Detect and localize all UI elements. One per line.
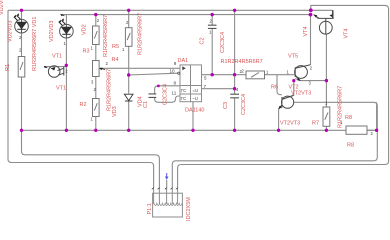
wire C2 bottom lead xyxy=(211,28,213,74)
svg-text:IDC2X5M: IDC2X5M xyxy=(186,197,192,221)
svg-text:C1: C1 xyxy=(143,101,149,108)
capacitor C2 xyxy=(208,25,217,28)
svg-text:R1R2R4R5R6R7: R1R2R4R5R6R7 xyxy=(107,69,113,111)
connector pin ticks xyxy=(152,188,178,190)
svg-text:ГС: ГС xyxy=(181,88,186,93)
pin arrow VT1 base xyxy=(44,66,48,68)
wire R3 to R2a xyxy=(95,45,97,61)
wire DA1 pin 7 xyxy=(202,88,235,90)
transistor VT2 xyxy=(295,65,311,81)
wire pin 9 to DA1 xyxy=(100,67,181,69)
resistor R4 xyxy=(125,28,132,47)
wire bus drop to connector xyxy=(22,130,160,188)
svg-text:P1:1: P1:1 xyxy=(147,203,153,214)
wire R8 right to junction xyxy=(367,102,377,130)
svg-text:8: 8 xyxy=(174,81,177,86)
wire R3 top xyxy=(95,15,97,26)
svg-text:DA1: DA1 xyxy=(178,58,189,64)
label R-list near R7 xyxy=(338,86,344,128)
pin arrow wire 9 start xyxy=(99,68,105,71)
wire VT4 emitter column to R7 xyxy=(325,34,327,107)
label R7 xyxy=(312,121,319,127)
label VT1 lower xyxy=(56,86,66,92)
transistor VT3 xyxy=(279,95,294,109)
label IDC2X5M xyxy=(186,197,192,221)
svg-text:VT1: VT1 xyxy=(56,86,66,92)
label R3 xyxy=(83,49,90,55)
pin marks small xyxy=(19,18,374,136)
capacitor C3 xyxy=(230,94,239,98)
svg-text:VT2: VT2 xyxy=(289,84,299,90)
LED VD2 xyxy=(59,18,74,38)
label C-list near C2 xyxy=(220,32,226,53)
svg-text:R6: R6 xyxy=(271,85,278,91)
label R6 xyxy=(271,85,278,91)
capacitor C1 xyxy=(149,94,157,98)
wire VD1 top lead xyxy=(21,10,23,19)
svg-text:11: 11 xyxy=(172,91,177,96)
label C-list near C3 xyxy=(241,94,247,115)
wire VT3 collector xyxy=(282,81,294,100)
chip DA1 pin 10 inversion bubble xyxy=(178,72,180,74)
wire R1 to bottom bus xyxy=(21,77,23,130)
svg-text:VT4: VT4 xyxy=(344,28,350,38)
label R-list lower left of VD4 xyxy=(107,69,113,111)
resistor R3 xyxy=(93,26,100,45)
label R8 upper xyxy=(345,115,352,121)
wire bottom bus xyxy=(22,129,377,131)
pin number 9 xyxy=(174,61,177,66)
wire R6 to transistor bases xyxy=(265,74,295,76)
label VD2VD3 second xyxy=(49,21,55,42)
label C2 xyxy=(200,37,206,44)
resistor R2a middle of chain xyxy=(93,61,100,77)
svg-text:–U: –U xyxy=(193,96,198,101)
resistor R8 horizontal xyxy=(346,126,367,134)
svg-text:R1R2R4R5R6R7: R1R2R4R5R6R7 xyxy=(138,13,144,55)
label VT2VT3 lower xyxy=(280,120,300,126)
label DA1 xyxy=(178,58,189,64)
svg-text:VT2VT3: VT2VT3 xyxy=(280,120,300,126)
wire node vertical to C3 xyxy=(234,10,236,94)
svg-text:R8: R8 xyxy=(347,143,354,149)
label C-list near C1 xyxy=(163,84,169,105)
pin number 11 xyxy=(172,91,177,96)
op-amp U1 chip DA1 body xyxy=(180,65,202,102)
pin number 5 xyxy=(204,76,207,81)
label R4 xyxy=(112,57,119,63)
label VT4 right xyxy=(344,28,350,38)
wire left edge xyxy=(8,10,12,162)
resistor R1 xyxy=(18,57,25,78)
wire VD4 to bottom bus xyxy=(128,102,130,131)
label VD4 xyxy=(138,96,144,107)
wire bus A top xyxy=(8,9,333,11)
label VT5 xyxy=(288,54,298,60)
wire C1 bottom to pin 11 xyxy=(155,96,180,102)
label R5 xyxy=(112,44,119,50)
svg-text:VD2VD3: VD2VD3 xyxy=(0,0,5,15)
LED VD1 xyxy=(14,13,29,33)
wire DA1 pin 5 to R6 xyxy=(202,74,247,76)
svg-text:VD2VD3: VD2VD3 xyxy=(49,21,55,42)
svg-text:VT5: VT5 xyxy=(288,54,298,60)
wire pin 10 to DA1 xyxy=(129,73,178,75)
label R-list VD1 xyxy=(32,17,38,71)
svg-text:R5: R5 xyxy=(112,44,119,50)
label VT2 xyxy=(289,84,299,90)
transistor VT1 xyxy=(48,66,63,78)
wire VD1 to R1 xyxy=(21,33,23,57)
wire branch to VT3 base xyxy=(277,75,282,95)
svg-text:9: 9 xyxy=(174,61,177,66)
chip DA1 internal marks xyxy=(181,66,198,101)
label R8 lower xyxy=(347,143,354,149)
svg-text:VD2VD3: VD2VD3 xyxy=(8,21,14,42)
label C3 xyxy=(223,102,229,109)
label fragment left edge xyxy=(0,0,5,15)
wire R2 to bottom bus xyxy=(95,117,97,131)
wire C2 top lead xyxy=(211,15,213,25)
wire VT2 collector xyxy=(310,15,312,65)
svg-text:VD3: VD3 xyxy=(112,106,118,117)
svg-text:VD2: VD2 xyxy=(82,24,88,35)
svg-text:R8: R8 xyxy=(345,115,352,121)
wire VT2 emitter xyxy=(295,79,326,81)
junction node dots xyxy=(20,8,379,132)
svg-text:R7: R7 xyxy=(312,121,319,127)
svg-text:R1R2R4R5R6R7 VD1: R1R2R4R5R6R7 VD1 xyxy=(32,17,38,71)
transistor VT4 xyxy=(314,10,334,34)
label R2 xyxy=(80,102,87,108)
svg-text:C2C3C4: C2C3C4 xyxy=(163,84,169,105)
resistor R6 horizontal xyxy=(246,71,265,79)
pin number 8 xyxy=(174,81,177,86)
label VT2VT3 upper xyxy=(291,91,311,97)
diode VD4 xyxy=(124,94,133,101)
wire R7 to bottom bus xyxy=(325,126,327,130)
wire connector middle pin stub xyxy=(166,180,168,189)
svg-text:R1R2R4R5R6R7: R1R2R4R5R6R7 xyxy=(103,15,109,57)
wire DA1 bottom pin to bus xyxy=(192,102,194,131)
wire VT4 left lead xyxy=(314,15,319,19)
svg-text:C3: C3 xyxy=(223,102,229,109)
wire VT3 emitter to bottom bus xyxy=(279,105,282,131)
wire C3 to bottom bus xyxy=(234,98,236,131)
wire outer top right loop xyxy=(178,5,389,188)
net arrow blue xyxy=(165,173,169,180)
label R1 xyxy=(5,64,11,71)
svg-text:R2: R2 xyxy=(80,102,87,108)
wire R4 to VD4 xyxy=(128,46,130,93)
svg-text:C2: C2 xyxy=(200,37,206,44)
label VD3 xyxy=(112,106,118,117)
svg-text:VT4: VT4 xyxy=(303,26,309,36)
label P1-1 xyxy=(147,203,153,214)
svg-text:7: 7 xyxy=(204,84,207,89)
svg-text:VT2VT3: VT2VT3 xyxy=(291,91,311,97)
svg-text:R1R2R4R5R6R7: R1R2R4R5R6R7 xyxy=(221,59,263,65)
wire bus B xyxy=(61,14,313,16)
label R-list left of R4 xyxy=(103,15,109,57)
svg-text:R1: R1 xyxy=(5,64,11,71)
svg-text:C2C3C4: C2C3C4 xyxy=(220,32,226,53)
label VT4 left xyxy=(303,26,309,36)
svg-text:5: 5 xyxy=(204,76,207,81)
label VD2VD3 left xyxy=(8,21,14,42)
label DA1140 xyxy=(185,108,204,114)
wire pin 8 to DA1 with corner to C1 xyxy=(155,86,180,94)
svg-text:C2C3C4: C2C3C4 xyxy=(241,94,247,115)
pin arrow bus B start xyxy=(60,14,64,16)
svg-text:DA1140: DA1140 xyxy=(185,108,204,114)
resistor R7 xyxy=(323,107,330,126)
wire VT3 collector net to inner right loop xyxy=(172,102,377,188)
resistor R2 xyxy=(93,99,100,117)
svg-text:VT1: VT1 xyxy=(52,54,62,60)
label R-list above R6 xyxy=(221,59,263,65)
wire VT1 base xyxy=(44,66,66,68)
wire VD2 column to bottom bus xyxy=(65,38,67,130)
label VT1 upper xyxy=(52,54,62,60)
label VD2 xyxy=(82,24,88,35)
svg-text:10: 10 xyxy=(170,69,176,74)
wire R4 top xyxy=(128,10,130,27)
svg-text:ГС: ГС xyxy=(181,96,186,101)
wire R2a to R2 xyxy=(95,77,97,99)
pin number 10 xyxy=(170,69,176,74)
svg-text:R4: R4 xyxy=(112,57,119,63)
svg-text:R3: R3 xyxy=(83,49,90,55)
label C1 xyxy=(143,101,149,108)
wire outer-left bottom to connector xyxy=(10,163,154,189)
svg-text:=U: =U xyxy=(193,88,198,93)
wire VT4 right lead xyxy=(332,10,334,18)
wire VD2 top lead xyxy=(65,15,67,25)
pin number 7 xyxy=(204,84,207,89)
label R-list right of R4 xyxy=(138,13,144,55)
connector P1-1 body xyxy=(153,189,183,218)
